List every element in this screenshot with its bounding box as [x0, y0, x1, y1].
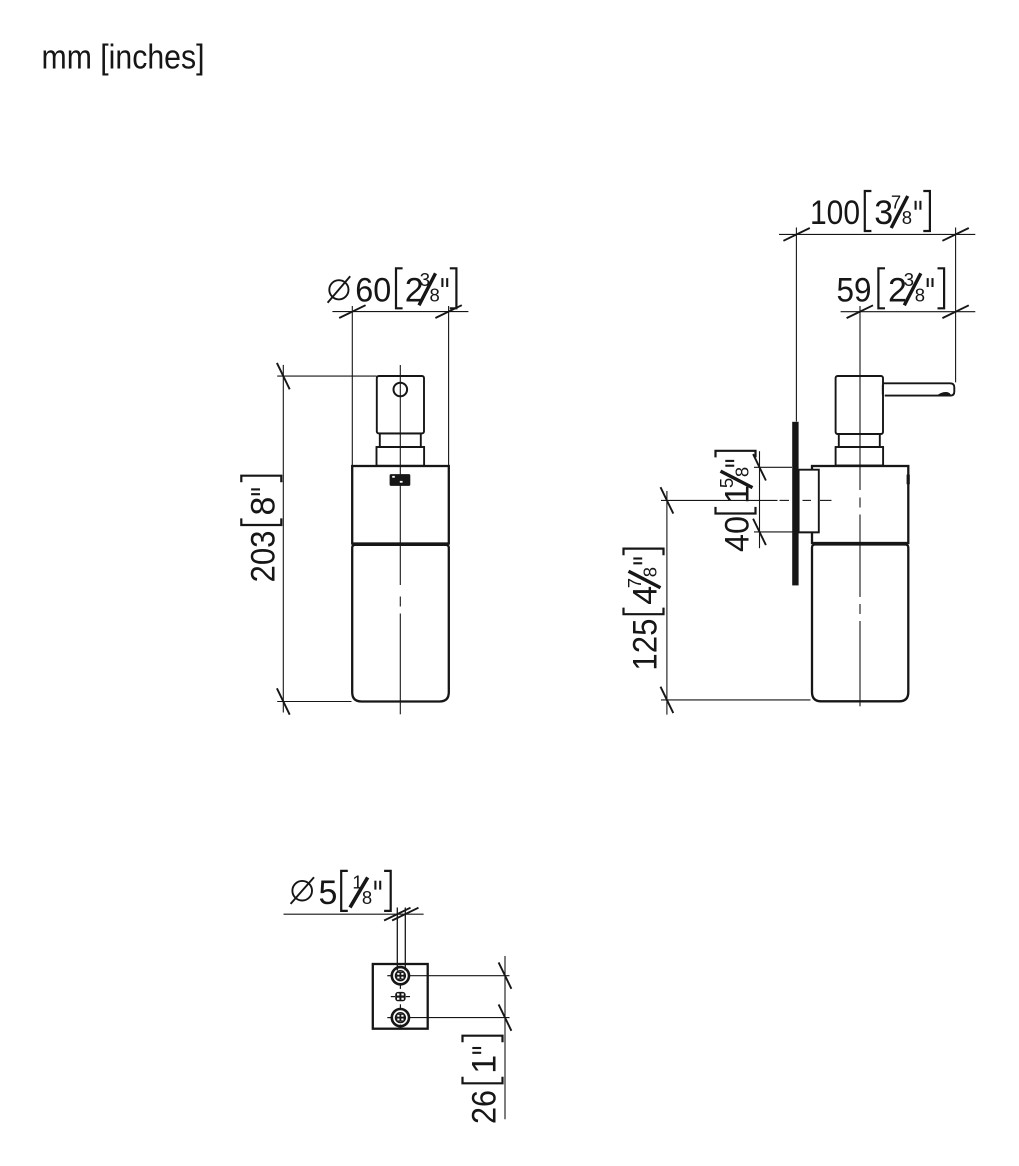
svg-text:100: 100: [810, 194, 860, 232]
svg-text:203: 203: [244, 531, 282, 583]
svg-text:5: 5: [319, 874, 338, 912]
svg-text:8: 8: [362, 887, 372, 908]
svg-text:8: 8: [244, 497, 282, 516]
svg-text:8: 8: [732, 467, 753, 477]
svg-text:8: 8: [430, 284, 440, 305]
svg-text:mm [inches]: mm [inches]: [42, 39, 205, 77]
svg-text:1: 1: [466, 1055, 504, 1074]
svg-text:26: 26: [466, 1090, 504, 1124]
svg-text:8: 8: [902, 207, 912, 228]
svg-text:60: 60: [355, 271, 391, 309]
svg-text:59: 59: [837, 271, 872, 309]
svg-text:125: 125: [627, 619, 665, 671]
svg-text:8: 8: [640, 567, 661, 577]
svg-text:40: 40: [719, 516, 757, 552]
svg-text:8: 8: [915, 284, 925, 305]
